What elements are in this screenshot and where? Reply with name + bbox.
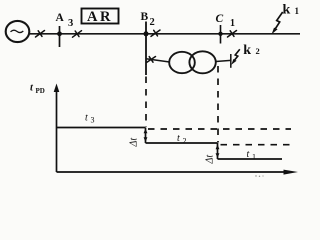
svg-text:t: t <box>85 113 88 124</box>
svg-text:Δt: Δt <box>205 155 216 165</box>
svg-text:t: t <box>247 149 250 160</box>
svg-text:3: 3 <box>68 18 73 29</box>
svg-text:2: 2 <box>150 17 155 28</box>
svg-text:Δt: Δt <box>129 138 140 148</box>
svg-text:t: t <box>177 133 180 144</box>
svg-text:A: A <box>56 12 65 24</box>
svg-text:k: k <box>283 3 291 18</box>
svg-text:C: C <box>216 13 224 25</box>
svg-text:B: B <box>141 11 149 23</box>
svg-text:1: 1 <box>252 153 256 162</box>
svg-text:PD: PD <box>36 87 45 95</box>
svg-text:k: k <box>243 43 251 58</box>
svg-text:1: 1 <box>295 6 300 16</box>
svg-text:AR: AR <box>87 9 113 25</box>
svg-text:2: 2 <box>256 46 260 56</box>
svg-text:3: 3 <box>91 116 95 125</box>
svg-text:2: 2 <box>183 137 187 146</box>
svg-text:1: 1 <box>230 18 235 29</box>
